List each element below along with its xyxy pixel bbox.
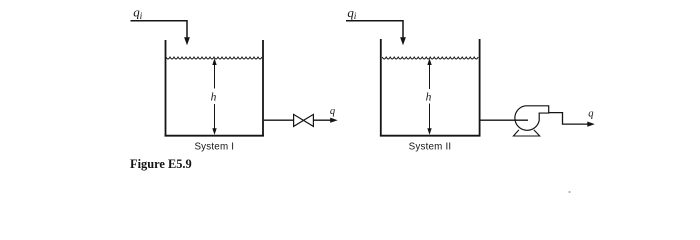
down arrowhead of h (System II) [427,128,431,135]
svg-text:Figure E5.9: Figure E5.9 [130,157,192,171]
stray scan speck [569,191,571,193]
valve (bowtie symbol) [294,114,304,126]
up arrowhead of h (System II) [427,58,431,65]
tank I right wall [262,40,264,136]
inlet arrowhead (System II) [400,37,406,45]
wire: pump discharge line [549,113,589,125]
discharge arrowhead (System II) [587,122,595,127]
tank I left wall [165,40,167,136]
label q_i (inlet flow, System II) [347,5,356,22]
tank II bottom [380,135,481,137]
pump P1 (centrifugal pump casing) [515,106,549,130]
tank II liquid surface (wavy line) [382,57,478,59]
tank I liquid surface (wavy line) [166,57,262,59]
tank II left wall [380,39,382,136]
wire: inlet flow line (System I) [131,21,188,39]
wire: outlet pipe tank I to valve [264,119,294,121]
down arrowhead of h (System I) [212,128,216,135]
level dimension line h (System I) [214,60,216,89]
wire: outlet flow line after valve (System I) [313,119,331,121]
svg-text:System I: System I [194,141,234,152]
outlet arrowhead (System I) [330,118,338,123]
up arrowhead of h (System I) [212,58,216,65]
tank II right wall [479,39,481,136]
level dimension line h (System II) [429,60,431,89]
svg-text:h: h [426,92,432,104]
wire: inlet flow line (System II) [346,21,403,39]
svg-text:System II: System II [409,141,452,152]
label q_i (inlet flow, System I) [133,5,142,22]
svg-text:q: q [588,108,593,119]
svg-text:h: h [211,92,217,104]
inlet arrowhead (System I) [184,37,190,45]
pump stand (triangular base) [513,130,539,136]
tank I bottom [165,135,265,137]
wire: pump suction pipe (tank II to pump, line runs to pump centre) [481,119,529,121]
svg-text:q: q [330,106,335,117]
